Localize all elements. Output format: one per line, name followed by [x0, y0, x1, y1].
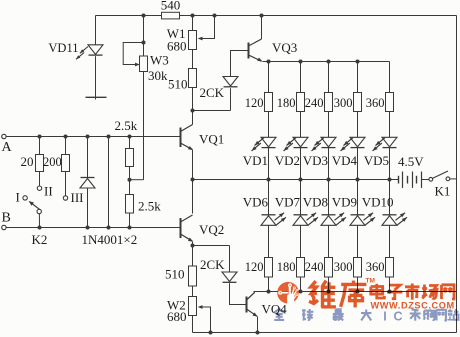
diode 2CK lower — [222, 272, 237, 282]
LED VD9 — [350, 216, 365, 226]
svg-text:120: 120 — [245, 260, 264, 274]
node bottom resistor rail junction col2 — [299, 290, 303, 294]
potentiometer W3 — [140, 56, 148, 72]
wire W3 bottom to divider node (crosses A line) — [143, 72, 145, 180]
svg-text:VD9: VD9 — [332, 195, 357, 210]
node bottom resistor rail junction col4 — [356, 290, 360, 294]
transistor VQ4 — [246, 297, 248, 313]
terminal A — [2, 134, 6, 138]
wire mid rail to LED VD10 — [389, 180, 391, 215]
wire 2CK upper branch horizontal — [193, 110, 231, 112]
wire mid rail to LED VD8 — [328, 180, 330, 215]
svg-text:C: C — [393, 310, 402, 324]
watermark text 网 — [441, 285, 454, 299]
wire VQ1 emitter to mid node — [192, 150, 194, 179]
resistor 240 upper col3 — [325, 93, 333, 112]
wire col4 resistor to LED VD4 — [357, 112, 359, 138]
wire 2CK upper branch vertical — [230, 88, 232, 110]
node mid rail junction col1 — [267, 178, 271, 182]
svg-text:I: I — [16, 190, 20, 205]
watermark text 维 — [309, 281, 336, 308]
wire 510 to node — [192, 88, 194, 111]
wire LED VD8 to resistor — [328, 225, 330, 257]
svg-text:W3: W3 — [150, 53, 169, 68]
wire 2CK lower branch vertical — [229, 246, 231, 273]
LED VD8 — [321, 216, 336, 226]
svg-text:III: III — [71, 190, 84, 205]
svg-text:240: 240 — [305, 260, 324, 274]
resistor 300 upper col4 — [354, 93, 362, 112]
svg-text:VD4: VD4 — [332, 153, 358, 168]
LED VD1 — [261, 137, 276, 147]
node mid rail junction col4 — [356, 178, 360, 182]
diode 1N4001 — [80, 179, 95, 189]
svg-text:2CK: 2CK — [200, 85, 225, 100]
node bottom rail W2 wiper junction — [209, 331, 213, 335]
wire to resistor 20 — [39, 137, 41, 155]
watermark text 球 — [302, 309, 313, 320]
resistor 2.5k lower — [126, 195, 134, 214]
node emitter rail junction col3 — [327, 60, 331, 64]
node bottom resistor rail junction col5 — [388, 290, 392, 294]
wire LED VD4 to mid rail — [357, 147, 359, 179]
svg-text:360: 360 — [366, 260, 385, 274]
wire battery to switch K1 — [422, 179, 429, 181]
svg-text:VD6: VD6 — [243, 195, 269, 210]
wire 510 to W2 — [192, 286, 194, 297]
node mid rail VQ1/VQ2 junction — [191, 178, 195, 182]
wire VQ2 emitter down — [192, 242, 194, 266]
node bottom resistor rail junction col1 — [267, 290, 271, 294]
resistor 120 upper col1 — [265, 93, 273, 112]
LED VD5 — [382, 137, 397, 147]
resistor 180 upper col2 — [297, 93, 305, 112]
node A line junction divider — [128, 135, 132, 139]
svg-text:200: 200 — [43, 155, 62, 169]
svg-text:2.5k: 2.5k — [115, 118, 138, 133]
svg-text:A: A — [2, 140, 13, 155]
node bottom resistor rail junction col3 — [327, 290, 331, 294]
watermark text 大 — [361, 310, 371, 321]
wire col2 resistor to LED VD2 — [300, 112, 302, 138]
wire 2CK upper to VQ3 base — [231, 51, 249, 77]
node emitter rail junction col1 — [267, 60, 271, 64]
svg-text:180: 180 — [277, 96, 296, 110]
wire col3 from emitter rail — [328, 62, 330, 93]
svg-text:K2: K2 — [32, 232, 48, 247]
watermark text 场 — [422, 284, 437, 298]
switch K1 — [429, 177, 433, 181]
wire W1 top feed — [192, 16, 194, 31]
svg-text:680: 680 — [167, 309, 187, 324]
potentiometer W2 — [189, 297, 197, 316]
terminal B — [2, 225, 6, 229]
diode 2CK upper — [223, 77, 238, 87]
watermark text 子 — [387, 285, 402, 299]
wire 2CK lower to VQ4 base — [230, 283, 246, 304]
transistor VQ2 — [180, 218, 182, 238]
wire K2 pole to B line — [38, 214, 40, 228]
node A line junction diode — [86, 135, 90, 139]
wire mid rail to LED VD6 — [268, 180, 270, 215]
watermark text 库 — [341, 281, 367, 308]
watermark text 最 — [333, 309, 344, 320]
node B line junction link wire — [107, 226, 111, 230]
svg-text:2CK: 2CK — [200, 257, 225, 272]
svg-text:240: 240 — [305, 96, 324, 110]
watermark text 全 — [274, 309, 284, 320]
wire W2 bottom to bottom rail — [192, 316, 194, 333]
resistor 180 lower col2 — [297, 258, 305, 278]
wire divider middle — [129, 167, 131, 195]
wire col2 resistor to bottom resistor rail — [300, 277, 302, 292]
wire emitter rail corner down to column 5 — [389, 62, 391, 93]
wire col1 from emitter rail — [268, 62, 270, 93]
wire A line — [6, 136, 180, 138]
svg-text:VQ2: VQ2 — [199, 222, 224, 237]
node VQ1 collector junction — [191, 109, 195, 113]
svg-text:VD10: VD10 — [362, 195, 394, 210]
resistor 300 lower col4 — [354, 258, 362, 278]
wire LED VD10 to resistor — [389, 225, 391, 257]
watermark text 网 — [436, 310, 445, 321]
wire W1 to 510 — [192, 50, 194, 69]
svg-text:VQ1: VQ1 — [199, 132, 224, 147]
wire top supply rail left segment — [96, 15, 162, 17]
wire W2 wiper — [201, 307, 211, 333]
svg-text:VQ4: VQ4 — [262, 302, 288, 317]
node mid rail junction col2 — [299, 178, 303, 182]
resistor 20 — [36, 155, 44, 172]
svg-text:II: II — [44, 184, 53, 199]
wire right edge vertical — [456, 16, 458, 333]
LED VD2 — [293, 137, 308, 147]
svg-text:30k: 30k — [148, 68, 168, 83]
LED VD11 anode wire from top rail — [95, 16, 97, 45]
node bottom rail VQ4 emitter junction — [256, 331, 260, 335]
node mid rail junction col3 — [327, 178, 331, 182]
wire to resistor 200 — [65, 137, 67, 155]
transistor VQ1 — [180, 128, 182, 148]
resistor 510 upper — [189, 69, 197, 88]
watermark logo circle — [277, 282, 299, 305]
resistor 360 upper col5 — [386, 93, 394, 112]
wire W3 top feed — [143, 16, 145, 57]
node VQ2 emitter junction — [191, 244, 195, 248]
terminal II — [37, 186, 41, 190]
wire LED VD5 to mid rail — [389, 147, 391, 179]
wire col3 resistor to LED VD3 — [328, 112, 330, 138]
switch K2 contact I — [23, 196, 27, 200]
wire col1 resistor to LED VD1 — [268, 112, 270, 138]
node top rail / W1 chain junction — [191, 14, 195, 18]
svg-text:VQ3: VQ3 — [272, 40, 297, 55]
watermark text 购 — [424, 309, 435, 320]
node emitter rail junction col4 — [356, 60, 360, 64]
svg-text:K1: K1 — [435, 184, 451, 199]
wire B line — [6, 227, 180, 229]
LED VD11 — [88, 45, 103, 55]
wire top supply rail right segment — [180, 15, 457, 17]
wire col5 resistor to LED VD5 — [389, 112, 391, 138]
node top rail / W1 wiper junction — [213, 14, 217, 18]
node B line junction diode — [86, 226, 90, 230]
wire col3 resistor to bottom resistor rail — [328, 277, 330, 292]
svg-text:VD1: VD1 — [243, 153, 268, 168]
wire bottom rail — [193, 332, 457, 334]
wire divider to B line — [129, 213, 131, 228]
watermark text 站 — [447, 309, 458, 320]
wire col4 resistor to bottom resistor rail — [357, 277, 359, 292]
node A line junction link wire — [107, 135, 111, 139]
LED VD4 — [350, 137, 365, 147]
switch K2 pole — [37, 209, 41, 213]
watermark text 采 — [410, 309, 421, 320]
terminal III — [63, 196, 67, 200]
svg-text:300: 300 — [334, 96, 353, 110]
svg-text:680: 680 — [167, 39, 187, 54]
wire A-B link — [108, 137, 110, 228]
wire resistor 20 to terminal II — [39, 172, 41, 186]
resistor 240 lower col3 — [325, 258, 333, 278]
svg-text:VD3: VD3 — [303, 153, 328, 168]
wire W1 wiper — [201, 16, 215, 39]
svg-text:510: 510 — [168, 77, 188, 92]
resistor 510 lower — [189, 266, 197, 286]
svg-text:I: I — [383, 310, 386, 324]
node A line junction R200 — [64, 135, 68, 139]
resistor 120 lower col1 — [265, 258, 273, 278]
wire mid rail — [193, 179, 399, 181]
battery 4.5V — [398, 176, 400, 184]
wire diode to B line — [87, 188, 89, 228]
svg-text:2.5k: 2.5k — [138, 199, 161, 214]
svg-text:1N4001×2: 1N4001×2 — [82, 232, 138, 247]
wire divider node link — [130, 179, 144, 181]
wire LED VD3 to mid rail — [328, 147, 330, 179]
wire col2 from emitter rail — [300, 62, 302, 93]
svg-text:VD7: VD7 — [275, 195, 301, 210]
wire col5 resistor to bottom resistor rail — [389, 277, 391, 292]
wire VD11 cathode to ground — [95, 56, 97, 99]
svg-text:B: B — [2, 211, 11, 226]
wire VQ4 emitter to bottom rail — [257, 317, 259, 333]
wire LED VD9 to resistor — [357, 225, 359, 257]
wire LED VD1 to mid rail — [268, 147, 270, 179]
svg-text:VD11: VD11 — [48, 41, 78, 55]
node B line junction divider — [128, 226, 132, 230]
node A line junction R20 — [38, 135, 42, 139]
node emitter rail junction col2 — [299, 60, 303, 64]
wire col1 resistor to bottom resistor rail — [268, 277, 270, 292]
LED VD7 — [293, 216, 308, 226]
wire resistor 200 to terminal III — [65, 172, 67, 196]
svg-text:VD5: VD5 — [364, 153, 389, 168]
transistor VQ3 — [248, 43, 250, 59]
svg-text:180: 180 — [277, 260, 296, 274]
svg-text:TM: TM — [366, 278, 375, 285]
node W3 wiper tie junction — [142, 41, 146, 45]
svg-text:VD2: VD2 — [275, 153, 300, 168]
wire LED VD6 to resistor — [268, 225, 270, 257]
svg-text:300: 300 — [334, 260, 353, 274]
resistor 540 (series in top rail) — [162, 12, 180, 19]
switch K2 arm — [30, 202, 40, 209]
LED VD10 — [382, 216, 397, 226]
wire A line to diode 1N4001 — [87, 137, 89, 178]
wire VQ3 emitter rail — [263, 61, 390, 63]
potentiometer W1 — [189, 31, 197, 50]
wire col4 from emitter rail — [357, 62, 359, 93]
node divider junction — [128, 178, 132, 182]
svg-text:VD8: VD8 — [303, 195, 328, 210]
wire mid rail to LED VD7 — [300, 180, 302, 215]
node mid rail junction col5 — [388, 178, 392, 182]
watermark text 市 — [405, 284, 420, 300]
svg-text:120: 120 — [245, 96, 264, 110]
svg-text:4.5V: 4.5V — [398, 154, 424, 169]
wire W3 wiper loop — [123, 43, 143, 65]
wire A line to divider — [129, 137, 131, 149]
svg-text:360: 360 — [366, 96, 385, 110]
watermark text 电 — [371, 284, 385, 298]
node B line junction K2 — [38, 226, 42, 230]
svg-text:540: 540 — [161, 0, 181, 13]
node top rail / W3 branch junction — [142, 14, 146, 18]
svg-text:20: 20 — [21, 154, 34, 169]
LED VD6 — [261, 216, 276, 226]
LED VD3 — [321, 137, 336, 147]
wire 2CK lower branch horizontal — [193, 245, 230, 247]
resistor 2.5k upper — [126, 149, 134, 167]
wire LED VD7 to resistor — [300, 225, 302, 257]
svg-text:510: 510 — [165, 267, 185, 282]
ground — [86, 96, 107, 98]
wire bottom resistor rail — [254, 291, 457, 293]
resistor 360 lower col5 — [386, 258, 394, 278]
wire mid rail to LED VD9 — [357, 180, 359, 215]
wire LED VD2 to mid rail — [300, 147, 302, 179]
wire VQ2 collector — [192, 180, 194, 214]
resistor 200 — [62, 155, 70, 172]
node top rail / VQ3 collector junction — [260, 14, 264, 18]
